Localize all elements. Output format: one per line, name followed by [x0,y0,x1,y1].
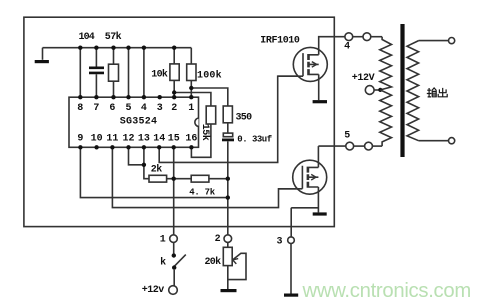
svg-text:11: 11 [106,134,118,145]
svg-text:+12v: +12v [142,285,165,296]
wire terminal 2 to pot [227,242,229,247]
transformer T1 primary winding lower half [380,90,392,146]
svg-text:12: 12 [123,134,135,145]
wire 2k to 4.7k [167,178,192,180]
ground (left, near pin 8 rail) [35,60,49,63]
svg-text:3: 3 [157,103,163,114]
wire 350 to C2 [227,123,229,133]
node output top [449,38,455,44]
svg-text:4: 4 [344,42,350,53]
wire ground drop left [42,48,44,60]
wire secondary bottom lead [419,140,449,142]
svg-text:1: 1 [160,235,166,246]
junction dot pin9/C2 column [226,195,230,199]
junction dots: IC top edge pins 8..1 [78,95,82,99]
svg-text:15k: 15k [199,124,211,141]
wire 15k bottom to pin16 [191,124,211,157]
wire Q1 source down [318,74,320,100]
svg-text:1: 1 [188,103,194,114]
ground (Q2 source) [313,212,327,215]
resistor R1 57k (rail to pin6) [113,48,115,97]
wire pin9 to terminal2 column [80,147,227,197]
wire switch to +12v [173,270,175,286]
svg-text:57k: 57k [105,31,122,43]
potentiometer RP1 20k [223,247,232,265]
junction dot pin12/13 [142,163,146,167]
wire pot to ground [227,266,229,289]
transformer T1 core [400,24,404,157]
svg-text:10: 10 [91,134,103,145]
ground (terminal 3) [284,294,298,297]
svg-text:IRF1010: IRF1010 [260,36,300,47]
svg-text:3: 3 [277,237,283,248]
svg-text:7: 7 [93,103,99,114]
wire pin11 to gate of Q2 [112,147,302,207]
junction dots: IC bottom edge pins 9..16 [78,145,82,149]
wire junction to terminal 1 [173,179,175,235]
junction dot 2k/4.7k/pin15 [172,177,176,181]
wire pin1 tap to 350 [191,88,228,106]
terminal 1 [170,235,178,243]
svg-text:100k: 100k [197,69,222,81]
svg-text:8: 8 [77,103,83,114]
terminal 3 [288,237,295,244]
node center tap +12V [365,86,374,95]
svg-text:16: 16 [185,134,197,145]
svg-text:2: 2 [215,234,221,245]
node output bottom [449,138,455,144]
wire Q1 drain up to terminal 4 [319,37,345,55]
IC U1 SG3524 body [69,97,199,147]
wire pin15 down [173,147,175,178]
svg-text:10k: 10k [151,68,168,80]
svg-text:4: 4 [141,103,147,114]
wire 4.7k right to C2 column [209,178,228,180]
svg-text:SG3524: SG3524 [120,117,158,128]
svg-text:5: 5 [126,103,132,114]
transformer T1 primary winding upper half [380,37,392,90]
junction dots: rail [78,46,82,50]
svg-text:9: 9 [77,134,83,145]
resistor R4 15k [206,106,216,124]
svg-text:350: 350 [236,112,253,123]
wire Q2 source down [317,187,319,212]
wire pin13 down to 2k [144,147,149,178]
svg-text:4. 7k: 4. 7k [189,188,215,198]
wire terminal 3 to ground [290,244,292,294]
svg-text:104: 104 [79,32,95,43]
wire terminal 1 to switch [173,242,175,253]
wire Q2 drain up to terminal 5 [317,146,319,167]
output label 输出 (drawn strokes) [427,88,447,97]
svg-text:13: 13 [138,134,150,145]
transformer T1 secondary winding [407,41,419,141]
capacitor C2 0.33uf [223,133,232,137]
resistor R5 350 [223,106,232,123]
IC pin1 notch [195,118,199,127]
svg-text:14: 14 [153,134,165,145]
terminal 2 [224,235,232,243]
resistor R3 100k (rail to pin1) [190,48,193,97]
wire pin4 to rail [143,48,145,97]
resistor R7 4.7k [191,175,209,182]
transistor Q1 IRF1010 (top MOSFET) [293,47,327,81]
wire top supply rail [43,47,191,49]
resistor R6 2k [149,175,167,182]
svg-text:2k: 2k [151,163,163,175]
junction dot pin2 tap [172,90,176,94]
svg-text:k: k [160,256,166,268]
terminal 4 connector pair [345,33,353,41]
wire pin5 to rail [128,48,130,97]
wire C2 down to terminal 2 [227,141,229,235]
enclosure border frame [24,17,334,226]
wire pin14 to gate of Q1 [159,76,303,162]
svg-text:6: 6 [109,103,115,114]
ground (Q1 source) [313,100,327,103]
svg-text:+12V: +12V [352,73,375,84]
switch K [172,253,176,257]
svg-text:20k: 20k [205,256,222,268]
svg-text:2: 2 [171,103,177,114]
wire terminal 5 row [372,145,382,147]
svg-text:0. 33uf: 0. 33uf [237,134,271,144]
junction dot pin1 tap [189,86,193,90]
capacitor C1 104 (rail to pin7) [95,48,97,97]
resistor R2 10k (rail to pin2) [173,48,175,97]
wire secondary top lead [419,40,449,42]
wire Q2 source tap to terminal 3 [291,208,318,237]
wire pin12 down-right [129,147,144,165]
svg-text:www.cntronics.com: www.cntronics.com [302,280,471,302]
wire pin2 tap to 15k [174,93,211,107]
ground (pot 20k) [221,289,237,292]
svg-text:15: 15 [168,134,180,145]
transistor Q2 IRF1010 (bottom MOSFET) [293,160,327,194]
wire pin8 to rail [79,48,81,97]
junction dot 4.7k/C2 column [226,177,230,181]
node +12v supply [169,286,178,295]
svg-text:5: 5 [344,130,350,141]
